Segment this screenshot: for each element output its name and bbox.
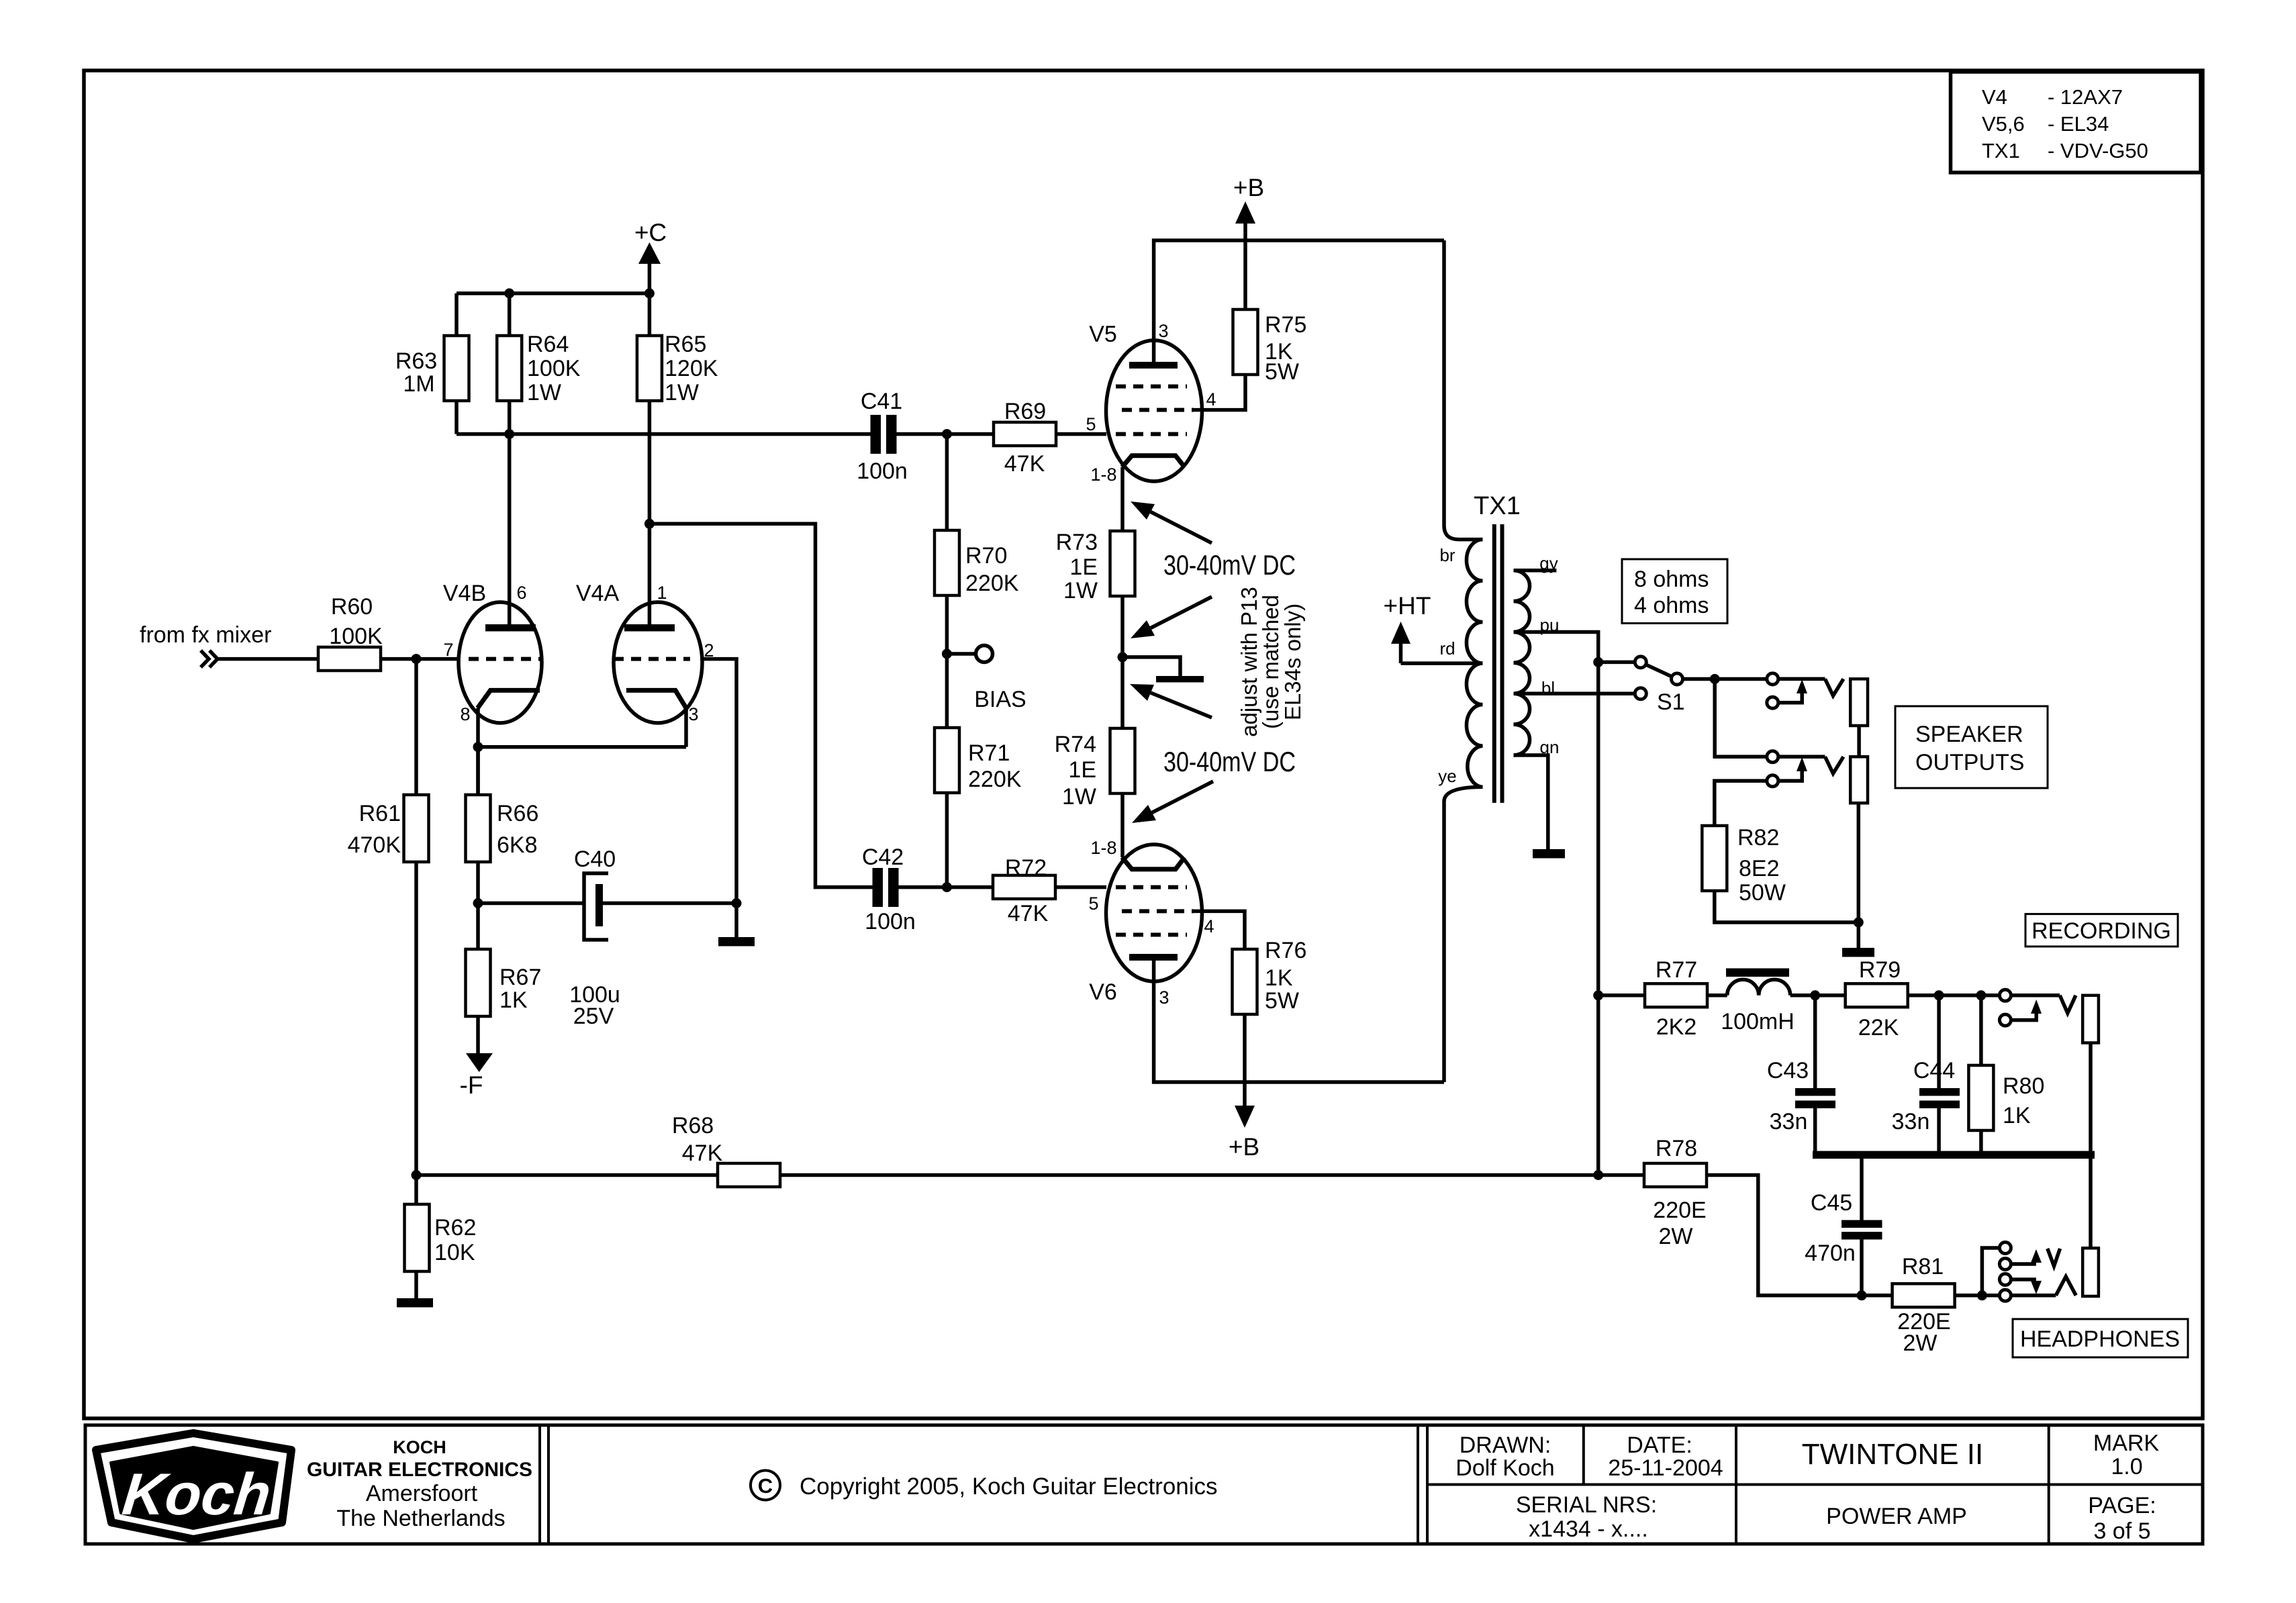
wire R61 branch down [414,659,418,795]
resistor R73 [1056,530,1135,603]
wire R63 bottom stub [455,401,459,434]
svg-text:POWER AMP: POWER AMP [1826,1504,1967,1529]
svg-text:DRAWN:: DRAWN: [1460,1432,1551,1458]
ground TX1 gn [1533,849,1565,859]
svg-text:R68: R68 [672,1113,714,1138]
svg-text:R82: R82 [1737,825,1779,851]
svg-text:4: 4 [1206,389,1216,409]
node junction R80 [1976,990,1986,1000]
wire R64 top stub [508,293,512,336]
wire grid rail to C41 [457,432,871,436]
node P13 wiper stub [1122,657,1204,683]
capacitor C41 [857,389,908,484]
wire R63 top stub [455,293,459,336]
svg-text:4: 4 [1204,916,1214,936]
svg-text:GUITAR ELECTRONICS: GUITAR ELECTRONICS [307,1459,532,1481]
svg-text:R80: R80 [2003,1073,2044,1099]
svg-text:1.0: 1.0 [2111,1454,2142,1479]
Koch logo [96,1433,291,1539]
wire C43 upper lead [1813,995,1817,1088]
tube V4B [443,581,542,723]
node junction R77 branch [1593,990,1603,1000]
resistor R75 [1233,309,1307,385]
wire to R77 [1598,993,1645,998]
wire cathode bus down to R66 [476,747,480,795]
V6 grid g1 dashed [1116,885,1187,889]
resistor R79 [1846,957,1908,1040]
text HEADPHONES box [2013,1319,2188,1357]
text SPEAKER OUTPUTS box [1895,706,2048,788]
svg-text:3: 3 [1158,321,1168,341]
V4B cathode [477,690,540,708]
V4A anode plate [624,624,675,632]
wire R82 bottom loop [1715,891,1859,922]
wire top rail [457,291,649,295]
svg-text:Dolf Koch: Dolf Koch [1455,1455,1554,1481]
svg-text:1W: 1W [1062,784,1096,810]
svg-text:1E: 1E [1068,757,1096,783]
resistor R81 [1893,1254,1955,1356]
svg-text:+B: +B [1229,1133,1259,1161]
svg-text:100K: 100K [329,624,383,649]
svg-text:6K8: 6K8 [497,832,538,858]
svg-text:1K: 1K [499,987,528,1013]
svg-text:5W: 5W [1265,988,1299,1014]
wire L1 to R79 [1790,993,1846,998]
svg-text:1E: 1E [1069,554,1098,580]
capacitor C43 [1767,1058,1835,1134]
wire R65 top stub [648,293,652,336]
svg-text:+HT: +HT [1384,592,1431,620]
wire S1 to jacks node [1683,677,1715,681]
svg-text:1M: 1M [403,371,434,397]
resistor R67 [466,949,542,1016]
svg-text:R71: R71 [968,740,1010,766]
wire R70 to R71 [945,595,949,728]
capacitor C40 [569,846,620,1029]
svg-text:V4B: V4B [443,581,486,606]
wire ye tap down to bottom rail [1444,787,1483,1082]
resistor R64 [497,332,581,405]
resistor R69 [994,399,1056,477]
wire C41 to R69 [897,432,994,436]
svg-text:-F: -F [460,1071,483,1099]
wire jack2 switch to R82 [1715,781,1767,826]
svg-text:TX1: TX1 [1474,492,1521,520]
svg-text:5: 5 [1086,414,1096,434]
wire R78 to headphone row [1707,1175,1862,1296]
svg-text:HEADPHONES: HEADPHONES [2020,1326,2180,1352]
svg-text:R76: R76 [1265,938,1306,963]
wire V4A pin3 down [684,708,688,747]
V4A grid dashed line [614,657,690,661]
node junction C41 R70 [942,429,952,439]
wire R61 to bottom bus [414,862,418,1175]
ground below R62 [397,1298,433,1308]
svg-text:+B: +B [1233,174,1264,201]
node junction pu bus R78 [1593,1170,1603,1180]
svg-text:C43: C43 [1767,1058,1809,1083]
parts info box [1951,72,2201,173]
node +C supply arrow [634,219,667,293]
svg-text:MARK: MARK [2093,1430,2160,1456]
svg-text:C42: C42 [862,844,904,870]
ground speaker jacks [1842,948,1874,957]
V5 cathode [1122,456,1184,467]
wire C45 lower lead [1860,1240,1864,1296]
wire R76 to bottom rail [1243,1014,1247,1082]
V6 grid g3 dashed [1116,933,1187,937]
node +B arrow bottom [1229,1082,1259,1161]
text adjust with P13 rotated [1237,587,1305,737]
svg-text:R70: R70 [965,543,1007,569]
capacitor C42 [862,844,916,934]
wire R80 lower lead [1979,1130,1983,1151]
TX1 secondary winding [1514,571,1530,755]
wire C42 to R72 [899,885,994,889]
node junction R61 R62 R68 [412,1170,422,1180]
title block company text [307,1437,532,1531]
svg-text:2K2: 2K2 [1656,1014,1697,1040]
wire jack1 sleeve to jack2 sleeve [1857,726,1861,757]
resistor R74 [1055,728,1135,810]
node junction R65 top [644,289,655,299]
svg-text:5: 5 [1088,893,1098,914]
page border frame [84,70,2203,1418]
resistor R80 [1968,1065,2044,1130]
wire R66 to R67 [476,862,480,949]
svg-text:R61: R61 [359,801,401,826]
svg-text:+C: +C [634,219,667,246]
svg-text:C41: C41 [861,389,902,414]
copyright symbol [751,1471,780,1500]
node junction R64 grid rail [504,429,514,439]
svg-text:R63: R63 [395,348,437,374]
V6 grid g2 dashed [1122,909,1194,913]
node BIAS terminal [947,646,1026,713]
wire headphone sleeve from bus [2089,1159,2093,1248]
svg-text:1-8: 1-8 [1090,838,1116,858]
svg-text:R75: R75 [1265,312,1306,338]
node -F supply arrow [460,1016,493,1099]
svg-text:8: 8 [460,704,470,724]
svg-text:ye: ye [1438,766,1456,786]
svg-text:SERIAL NRS:: SERIAL NRS: [1516,1492,1657,1518]
node junction R82 jack sleeve ground [1854,918,1864,928]
svg-text:R62: R62 [434,1215,476,1241]
svg-text:1-8: 1-8 [1090,465,1116,485]
capacitor C45 [1805,1190,1882,1266]
wire S1 node down to jack 2 [1715,679,1767,757]
wire junction to C40 [478,902,584,906]
wire junction to R62 [414,1175,418,1205]
node +HT supply arrow [1384,592,1431,663]
headphone jack [1999,1243,2099,1302]
wire jack2 sleeve down [1857,803,1861,922]
svg-text:100K: 100K [527,356,581,381]
resistor R71 [935,728,1022,793]
wire C44 lower lead [1937,1108,1941,1151]
svg-text:220E: 220E [1653,1198,1706,1223]
node junction R60 output [412,654,422,664]
node annotation arrow to wiper node [1130,684,1212,718]
svg-text:R67: R67 [499,965,541,990]
svg-text:2W: 2W [1659,1224,1693,1249]
svg-text:6: 6 [516,583,526,603]
svg-text:1W: 1W [1063,578,1098,603]
svg-text:(use matched: (use matched [1258,595,1283,729]
wire C40 to ground junction [603,902,736,906]
svg-text:33n: 33n [1892,1109,1930,1134]
svg-text:SPEAKER: SPEAKER [1915,722,2023,747]
wire junction to ground [1857,922,1861,948]
svg-text:7: 7 [443,640,453,660]
text RECORDING box [2025,914,2178,946]
svg-text:- VDV-G50: - VDV-G50 [2048,139,2148,162]
svg-text:25-11-2004: 25-11-2004 [1608,1455,1723,1481]
svg-text:rd: rd [1439,638,1455,659]
svg-text:C: C [758,1474,773,1498]
V5 grid g3 dashed [1116,385,1187,389]
node junction R64 top [504,289,514,299]
svg-text:22K: 22K [1858,1015,1899,1040]
title block fields text [1455,1430,2159,1544]
resistor R77 [1645,957,1707,1040]
svg-text:R72: R72 [1005,855,1047,881]
svg-text:BIAS: BIAS [974,687,1026,712]
V4B anode plate [485,624,536,632]
svg-text:R74: R74 [1055,732,1096,757]
V5 anode plate [1129,362,1178,369]
svg-text:220K: 220K [965,571,1019,596]
wire R65 bottom to V4A anode [648,401,652,624]
svg-text:R73: R73 [1056,530,1098,555]
node annotation arrow to bias node [1131,597,1212,638]
svg-text:C40: C40 [574,846,616,872]
wire gy stub [1514,569,1557,573]
V4A cathode [626,690,686,708]
wire C43 lower lead [1813,1108,1817,1151]
svg-text:100n: 100n [865,909,916,934]
node junction bias tap [942,649,952,659]
tube V5 [1089,322,1202,481]
switch S1 [1635,657,1684,715]
inductor 100mH [1721,969,1795,1035]
svg-text:25V: 25V [573,1004,614,1029]
wire +B rail down to TX1 br [1444,240,1483,539]
speaker jack 2 [1767,751,1868,804]
svg-text:TX1: TX1 [1982,139,2020,162]
wire to R81 [1862,1294,1893,1298]
resistor R68 [672,1113,780,1187]
wire gn tap to ground [1514,755,1548,849]
recording jack [1999,989,2099,1042]
ground V4A cathode network [718,937,755,946]
svg-text:The Netherlands: The Netherlands [336,1506,505,1531]
svg-text:30-40mV DC: 30-40mV DC [1163,549,1296,581]
resistor R66 [466,795,539,862]
wire R80 upper lead [1979,995,1983,1065]
wire V6 pin4 to R76 [1194,911,1245,949]
TX1 primary winding [1466,540,1482,787]
svg-text:R77: R77 [1656,957,1697,983]
svg-text:47K: 47K [682,1140,723,1166]
svg-text:30-40mV DC: 30-40mV DC [1163,746,1296,777]
wire feedback to C42 [649,524,872,887]
resistor R76 [1233,938,1307,1014]
wire V5 cathode down [1120,467,1125,531]
wire junction down to R70 [945,434,949,530]
resistor R82 [1702,825,1786,906]
svg-text:S1: S1 [1657,689,1685,715]
wire C44 upper lead [1937,995,1941,1088]
resistor R72 [993,855,1055,926]
wire V4B pin8 down [476,708,480,795]
svg-text:EL34s only): EL34s only) [1280,603,1305,720]
node junction pu S1 branch [1593,657,1603,667]
svg-text:4 ohms: 4 ohms [1634,593,1709,618]
svg-text:3: 3 [688,704,698,724]
svg-text:V4A: V4A [576,581,620,606]
svg-text:R65: R65 [665,332,706,357]
svg-text:C44: C44 [1913,1058,1955,1083]
wire pu branch to S1 [1598,661,1635,665]
node junction bias wiper [1118,652,1128,662]
svg-text:120K: 120K [665,356,718,381]
svg-text:DATE:: DATE: [1627,1432,1692,1458]
svg-text:RECORDING: RECORDING [2031,918,2171,944]
svg-text:V5,6: V5,6 [1982,112,2025,136]
svg-text:from fx mixer: from fx mixer [140,622,271,648]
svg-text:x1434 - x....: x1434 - x.... [1529,1516,1648,1542]
node junction C45 R81 [1857,1290,1867,1300]
tube V6 [1089,844,1202,1005]
wire pu tap down to recording bus [1514,632,1598,1175]
wire bottom bus to R68 [416,1173,718,1177]
V5 grid g2 dashed [1122,408,1194,412]
svg-text:Copyright 2005, Koch Guitar El: Copyright 2005, Koch Guitar Electronics [800,1473,1218,1500]
wire R77 to L1 [1707,993,1727,998]
svg-text:- EL34: - EL34 [2048,112,2109,136]
svg-text:R81: R81 [1902,1254,1944,1279]
resistor R65 [637,332,718,405]
node junction S1 output [1710,674,1720,684]
svg-text:47K: 47K [1008,901,1049,926]
svg-text:100mH: 100mH [1721,1009,1795,1034]
svg-text:- 12AX7: - 12AX7 [2048,85,2123,109]
svg-text:R69: R69 [1004,399,1046,424]
svg-text:3: 3 [1159,987,1169,1008]
svg-text:1W: 1W [665,380,699,405]
wire R68 to R78 bus [780,1173,1644,1177]
text 8 ohms 4 ohms box [1622,559,1727,624]
node junction R66 R67 C40 [473,898,483,908]
wire R72 to V6 pin5 [1055,885,1106,889]
svg-text:2W: 2W [1903,1330,1938,1356]
svg-text:KOCH: KOCH [393,1437,446,1457]
svg-text:1W: 1W [527,380,561,405]
svg-text:5W: 5W [1265,359,1299,385]
wire R71 to C42 node [945,793,949,887]
wire cathode bus to V4A pin3 [478,745,686,749]
svg-text:33n: 33n [1770,1109,1808,1134]
wire V5 pin4 to R75 [1194,375,1245,410]
svg-text:10K: 10K [434,1240,475,1265]
node junction C44 [1934,990,1944,1000]
svg-text:R66: R66 [497,801,538,826]
wire headphone tip bracket [1982,1248,1999,1296]
wire R73 to R74 [1120,596,1125,728]
wire V5 anode to top rail [1154,240,1444,362]
svg-text:V5: V5 [1089,322,1117,347]
resistor R61 [348,795,429,862]
title block frame [85,1425,2203,1544]
svg-text:100n: 100n [857,458,908,484]
wire R64 bottom to V4B anode [508,401,512,624]
node junction C43 [1810,990,1820,1000]
svg-text:OUTPUTS: OUTPUTS [1915,750,2024,775]
node input chevrons from fx mixer [140,622,271,667]
svg-text:1K: 1K [1265,965,1293,991]
wire V6 anode to bottom rail [1154,961,1444,1082]
svg-text:R60: R60 [331,594,373,620]
speaker jack 1 [1767,673,1868,726]
svg-text:3 of 5: 3 of 5 [2093,1518,2150,1544]
node junction C40 right [732,898,742,908]
wire recording jack sleeve to bus [2089,1043,2093,1152]
wire R75 top to rail [1243,240,1247,309]
tube V4A [576,581,702,723]
svg-text:R79: R79 [1859,957,1901,983]
resistor R78 [1644,1136,1707,1249]
wire R79 to recording jack [1908,993,2000,998]
svg-text:PAGE:: PAGE: [2088,1493,2156,1518]
node thick common bus [1813,1151,2095,1159]
node annotation arrow to V5 cathode [1131,501,1212,543]
wire bl tap to S1 [1514,691,1635,695]
V5 grid g1 dashed [1116,432,1187,436]
node junction V4A anode feedback [644,519,655,529]
wire to speaker jack 1 tip [1715,677,1767,681]
wire R69 to V5 pin5 [1056,432,1106,436]
node junction C42 R71 [942,882,952,892]
wire rd tap [1401,661,1483,665]
svg-text:R64: R64 [527,332,569,357]
svg-text:1: 1 [657,583,667,603]
capacitor C44 [1892,1058,1960,1134]
node junction pin8 cathode bus [473,742,483,752]
resistor R70 [935,530,1019,596]
wire R81 to headphone jack [1955,1294,2000,1298]
resistor R60 [318,594,383,671]
TX1 core [1494,524,1502,803]
V4B grid dashed line [469,657,541,661]
svg-text:R78: R78 [1656,1136,1697,1161]
wire V4A pin2 to ground rail [702,659,736,937]
node +B arrow top [1233,174,1264,240]
svg-text:220K: 220K [968,767,1022,792]
resistor R62 [405,1204,477,1271]
svg-text:47K: 47K [1004,451,1045,477]
wire C45 upper lead [1860,1159,1864,1220]
V6 cathode [1122,857,1184,869]
svg-text:8 ohms: 8 ohms [1634,567,1709,592]
svg-text:br: br [1439,545,1455,565]
resistor R63 [395,336,469,401]
V6 anode plate [1129,954,1178,961]
svg-text:Koch: Koch [119,1461,274,1527]
svg-text:V6: V6 [1089,979,1117,1005]
